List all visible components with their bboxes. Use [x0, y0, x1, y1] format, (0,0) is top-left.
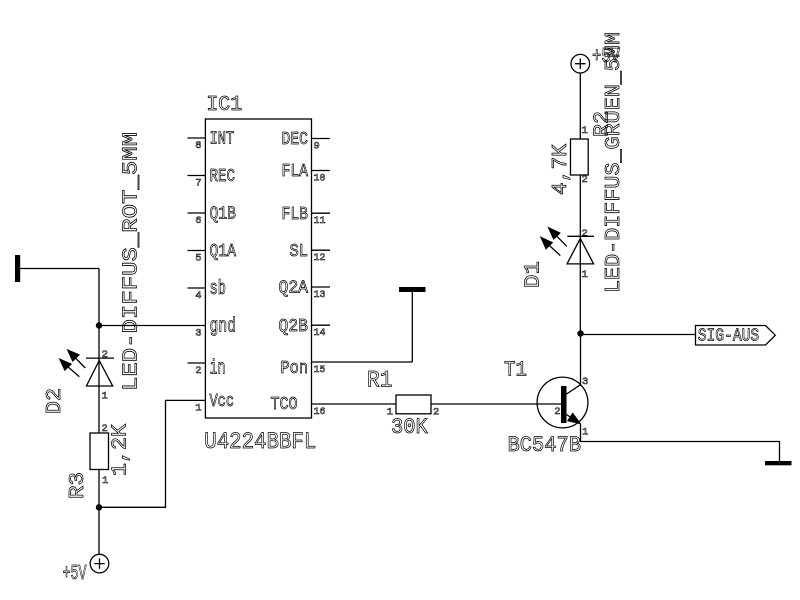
ground GND2 (middle): [399, 287, 426, 362]
pin 9 stub: [312, 138, 331, 140]
svg-text:SIG-AUS: SIG-AUS: [698, 327, 760, 347]
svg-text:FLB: FLB: [282, 205, 309, 225]
svg-text:D2: D2: [44, 388, 67, 414]
svg-text:12: 12: [314, 252, 326, 264]
svg-text:2: 2: [433, 407, 439, 419]
svg-text:2: 2: [582, 228, 588, 240]
svg-text:R1: R1: [367, 368, 393, 394]
svg-text:1: 1: [102, 475, 108, 487]
svg-text:1,2K: 1,2K: [110, 424, 133, 476]
svg-text:sb: sb: [210, 278, 227, 301]
svg-text:REC: REC: [210, 167, 236, 187]
svg-text:BC547B: BC547B: [508, 433, 582, 458]
svg-text:1: 1: [387, 407, 393, 419]
junction node B: [96, 504, 102, 510]
svg-text:T1: T1: [504, 360, 527, 383]
pin 11 stub: [312, 212, 331, 214]
svg-text:13: 13: [314, 289, 326, 301]
svg-text:9: 9: [314, 141, 320, 153]
wire IC pin 16 TCO to R1: [312, 403, 397, 405]
svg-text:1: 1: [195, 402, 201, 414]
svg-text:3: 3: [582, 376, 588, 388]
pin 6 stub: [188, 212, 206, 214]
pin 8 stub: [188, 137, 206, 139]
svg-text:2: 2: [195, 365, 201, 377]
junction node C: [577, 330, 583, 336]
pin 10 stub: [312, 170, 331, 172]
transistor T1 BC547B: [537, 377, 588, 428]
pin 7 stub: [188, 175, 206, 177]
svg-text:DEC: DEC: [282, 130, 309, 150]
svg-text:1: 1: [582, 125, 588, 137]
wire R1 to T1 base: [431, 403, 561, 405]
svg-text:SL: SL: [290, 242, 309, 262]
wire node A down to D2 cathode: [98, 269, 100, 359]
svg-text:15: 15: [314, 364, 326, 376]
wire emitter to GND3: [581, 424, 780, 461]
LED D1: [541, 228, 594, 335]
svg-text:30K: 30K: [391, 415, 429, 440]
svg-text:16: 16: [314, 406, 326, 418]
svg-text:1: 1: [582, 269, 588, 281]
svg-text:2: 2: [102, 349, 108, 361]
resistor R1: [396, 395, 431, 414]
svg-text:Vcc: Vcc: [210, 392, 235, 412]
supply +5V (top-right): [571, 54, 590, 73]
svg-text:8: 8: [195, 140, 201, 152]
pin 12 stub: [312, 249, 331, 251]
wire node B to IC pin 1 Vcc: [99, 400, 205, 507]
svg-text:2: 2: [554, 406, 560, 418]
svg-text:Q2A: Q2A: [279, 279, 309, 299]
svg-text:6: 6: [195, 215, 201, 227]
svg-text:10: 10: [314, 173, 326, 185]
wire node A to IC pin 3 gnd: [99, 325, 205, 327]
IC U4224BBFL IC1 box: [205, 119, 311, 418]
svg-text:IC1: IC1: [206, 94, 242, 117]
svg-text:D1: D1: [523, 261, 546, 288]
svg-text:Q2B: Q2B: [279, 317, 309, 337]
wire R2 to D1: [579, 175, 581, 236]
svg-text:1: 1: [102, 391, 108, 403]
svg-text:Pon: Pon: [281, 359, 309, 379]
svg-text:2: 2: [102, 423, 108, 435]
wire GND1 to node A: [20, 268, 99, 270]
resistor R3: [90, 433, 109, 470]
svg-text:+5V: +5V: [63, 563, 87, 586]
svg-text:U4224BBFL: U4224BBFL: [204, 429, 316, 455]
svg-text:FLA: FLA: [282, 162, 309, 182]
supply +5V (bottom-left): [90, 554, 109, 573]
svg-text:4,7K: 4,7K: [550, 144, 573, 195]
svg-text:INT: INT: [210, 130, 235, 150]
svg-text:2: 2: [582, 174, 588, 186]
svg-text:7: 7: [195, 178, 201, 190]
svg-text:gnd: gnd: [210, 316, 237, 339]
svg-text:4: 4: [195, 290, 201, 302]
svg-text:Q1B: Q1B: [210, 205, 237, 225]
svg-text:11: 11: [314, 215, 326, 227]
wire node C to SIG-AUS flag: [581, 334, 696, 336]
pin 5 stub: [188, 250, 206, 252]
wire GND2 to IC pin 15 Pon: [312, 361, 413, 363]
wire collector to node C: [580, 334, 582, 385]
pin 2 stub: [188, 362, 206, 364]
ground GND1 (top-left): [15, 255, 20, 282]
junction node A: [96, 322, 102, 328]
wire supply to R2: [579, 73, 581, 139]
svg-text:LED-DIFFUS_GRUEN_5MM: LED-DIFFUS_GRUEN_5MM: [603, 32, 626, 293]
svg-text:5: 5: [195, 253, 201, 265]
pin 13 stub: [312, 286, 331, 288]
svg-text:1: 1: [582, 427, 588, 439]
svg-text:14: 14: [314, 327, 326, 339]
ground GND3 (bottom-right): [765, 461, 792, 465]
net flag SIG-AUS: [696, 326, 776, 346]
wire R3 to +5V supply: [98, 470, 100, 555]
svg-text:R3: R3: [67, 472, 90, 499]
svg-text:LED-DIFFUS_ROT_5MM: LED-DIFFUS_ROT_5MM: [121, 132, 144, 391]
svg-text:in: in: [210, 358, 226, 381]
resistor R2: [571, 139, 589, 175]
svg-text:TCO: TCO: [271, 395, 298, 415]
svg-text:Q1A: Q1A: [210, 242, 237, 262]
pin 14 stub: [312, 324, 331, 326]
svg-text:3: 3: [195, 328, 201, 340]
pin 4 stub: [188, 287, 206, 289]
LED D2: [60, 350, 114, 433]
